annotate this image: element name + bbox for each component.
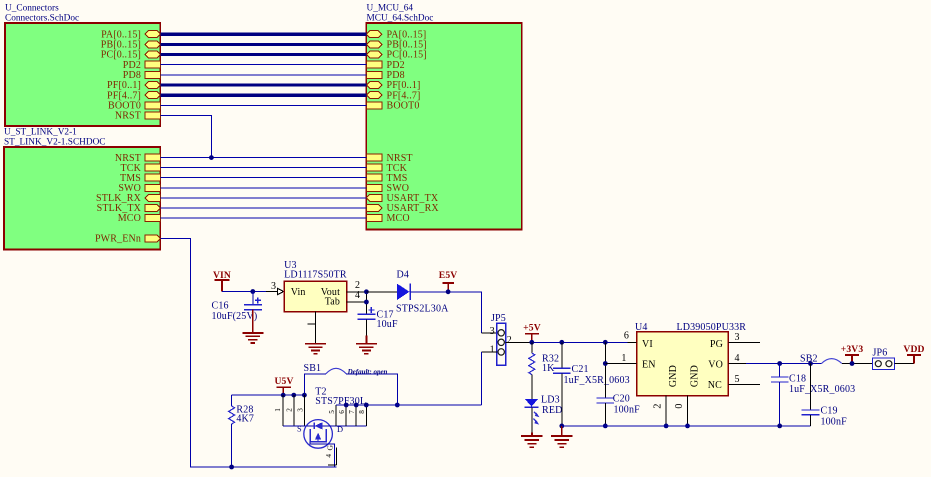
- sheet entry BOOT0 (MCU): [366, 101, 419, 112]
- pin 1 of U3 (gnd) with tick: [308, 312, 316, 344]
- svg-text:LD1117S50TR: LD1117S50TR: [284, 270, 347, 281]
- svg-text:5: 5: [328, 410, 336, 414]
- bus PF[4..7]: [161, 93, 367, 96]
- sheet entry PD2 (U_Connectors): [123, 60, 161, 71]
- svg-text:GND: GND: [690, 365, 701, 387]
- svg-text:C18: C18: [789, 374, 806, 385]
- sheet symbol U_Connectors: [5, 4, 160, 127]
- wire JP6 to VDD: [895, 363, 915, 365]
- ground (rail): [551, 426, 572, 447]
- power port U5V: [274, 376, 293, 395]
- diode D4 STPS2L30A: [396, 270, 449, 315]
- pin 3 of U4 (PG): [728, 332, 760, 343]
- svg-text:STPS2L30A: STPS2L30A: [396, 304, 449, 315]
- junction T2 pin2: [291, 393, 296, 398]
- junction U4 gnd pad: [685, 424, 690, 429]
- sheet entry STLK_RX (ST_LINK): [96, 193, 160, 204]
- svg-text:10uF: 10uF: [377, 319, 398, 330]
- sheet entry PB[0..15] (MCU): [366, 40, 426, 51]
- svg-text:VI: VI: [642, 339, 653, 350]
- solder bridge SB2: [800, 354, 842, 365]
- sheet entry PA[0..15] (MCU): [366, 29, 426, 40]
- wire EN to U4 pin 1: [605, 363, 627, 365]
- sheet entry USART_TX (MCU): [366, 193, 438, 204]
- svg-text:NC: NC: [708, 380, 722, 391]
- power port +3V3: [841, 344, 864, 363]
- sheet entry PWR_ENn (ST_LINK): [95, 234, 161, 245]
- power port +5V: [523, 323, 541, 343]
- sheet entry PD2 (MCU): [366, 60, 404, 71]
- resistor R28: [229, 395, 254, 467]
- svg-text:JP5: JP5: [491, 313, 506, 324]
- junction C21 bottom / gnd rail: [559, 424, 564, 429]
- wire U3 out to D4: [366, 291, 397, 293]
- junction C16 node: [250, 289, 255, 294]
- svg-text:7: 7: [348, 410, 356, 414]
- pin 3 of T2: [296, 395, 304, 426]
- pin G4 of T2 (gate): [310, 442, 337, 468]
- bus PC[0..15]: [161, 53, 367, 56]
- wire PWR_ENn down to T2 gate net: [161, 238, 337, 467]
- svg-text:Tab: Tab: [325, 297, 340, 308]
- svg-text:VDD: VDD: [903, 344, 924, 355]
- pin 6 of U4 (VI): [624, 331, 637, 343]
- bus PF[0..1]: [161, 83, 367, 86]
- power port E5V: [439, 270, 458, 292]
- sheet entry SWO (ST_LINK): [118, 183, 160, 194]
- svg-text:SB1: SB1: [304, 363, 322, 374]
- sheet entry SWO (MCU): [366, 183, 409, 194]
- svg-text:Vin: Vin: [291, 287, 306, 298]
- sheet entry NRST (MCU): [366, 153, 412, 164]
- regulator U4 LD39050PU33R: [635, 322, 746, 396]
- capacitor C18: [771, 364, 855, 426]
- svg-text:U_Connectors: U_Connectors: [5, 4, 59, 14]
- svg-text:5: 5: [735, 374, 740, 385]
- bus PA[0..15]: [161, 33, 367, 36]
- svg-text:1: 1: [490, 345, 495, 356]
- transistor T2 STS7PF30L: [297, 387, 366, 449]
- junction U3 out: [364, 289, 369, 294]
- junction T2 pin1: [281, 393, 286, 398]
- svg-text:2: 2: [286, 408, 294, 412]
- wire PD8: [161, 74, 367, 76]
- svg-text:+5V: +5V: [523, 323, 541, 334]
- svg-text:MCU_64.SchDoc: MCU_64.SchDoc: [367, 14, 434, 24]
- pin 6 of T2: [338, 405, 346, 426]
- capacitor C21: [553, 342, 630, 426]
- junction +3V3: [850, 361, 855, 366]
- svg-text:6: 6: [624, 331, 629, 342]
- wire U5V source rail: [232, 394, 305, 396]
- sheet entry MCO (ST_LINK): [118, 213, 161, 224]
- sheet entry TCK (MCU): [366, 163, 407, 174]
- svg-text:NRST: NRST: [115, 111, 141, 122]
- wire STLK_RX to USART_TX: [161, 197, 367, 199]
- svg-text:0: 0: [674, 403, 685, 408]
- svg-text:4: 4: [735, 353, 740, 364]
- wire MCO: [161, 217, 367, 219]
- svg-text:C21: C21: [572, 364, 589, 375]
- svg-text:RED: RED: [542, 405, 562, 416]
- bus PB[0..15]: [161, 43, 367, 46]
- wire NRST from U_Connectors down: [161, 115, 212, 157]
- sheet entry PF[0..1] (U_Connectors): [107, 80, 160, 91]
- junction E5V: [446, 289, 451, 294]
- svg-text:U_MCU_64: U_MCU_64: [367, 4, 414, 14]
- svg-text:1: 1: [274, 408, 282, 412]
- sheet entry PB[0..15] (U_Connectors): [101, 40, 161, 51]
- wire T2 drain rail: [336, 404, 481, 406]
- svg-text:2: 2: [507, 335, 512, 346]
- sheet entry USART_RX (MCU): [366, 203, 439, 214]
- wire T2 drain bar: [330, 425, 367, 427]
- svg-text:C20: C20: [613, 394, 630, 405]
- junction C20 bottom: [603, 424, 608, 429]
- svg-text:1uF_X5R_0603: 1uF_X5R_0603: [789, 384, 855, 395]
- junction EN node: [603, 361, 608, 366]
- regulator U3 LD1117S50TR: [284, 260, 347, 312]
- power port VIN: [213, 270, 231, 292]
- capacitor C19: [802, 364, 848, 428]
- LED LD3 RED: [525, 395, 563, 425]
- sheet entry PF[4..7] (MCU): [366, 90, 420, 101]
- capacitor C17: [358, 307, 398, 330]
- pin 5 of U4 (NC): [728, 374, 760, 385]
- capacitor C20: [596, 394, 640, 426]
- svg-text:2: 2: [653, 403, 664, 408]
- wire JP5 pin1 down to T2 drain rail: [481, 351, 497, 353]
- pin 2 of U3 (Vout): [347, 280, 367, 292]
- pin 7 of T2: [348, 405, 356, 426]
- svg-text:D4: D4: [397, 270, 410, 281]
- junction +5V: [529, 340, 534, 345]
- svg-text:SB2: SB2: [800, 354, 818, 365]
- pin 1 of T2: [274, 395, 283, 426]
- sheet entry TMS (ST_LINK): [120, 173, 161, 184]
- sheet entry MCO (MCU): [366, 213, 409, 224]
- wire U3 output node: [365, 292, 367, 315]
- svg-text:4: 4: [325, 454, 333, 458]
- pin 0 of U4 (GND pad): [674, 396, 688, 426]
- pin 4 of U4 (VO): [728, 353, 746, 364]
- solder bridge SB1: [304, 363, 398, 405]
- sheet entry NRST (U_Connectors): [115, 111, 161, 122]
- sheet entry TCK (ST_LINK): [121, 163, 161, 174]
- junction T2 pin3: [302, 393, 307, 398]
- svg-text:3: 3: [490, 326, 495, 337]
- svg-text:ST_LINK_V2-1.SCHDOC: ST_LINK_V2-1.SCHDOC: [4, 138, 106, 148]
- sheet entry NRST (ST_LINK): [115, 153, 161, 164]
- svg-text:MCO: MCO: [387, 213, 410, 224]
- ground (C16): [242, 310, 263, 343]
- svg-text:S: S: [297, 425, 302, 434]
- junction C18 bottom: [777, 424, 782, 429]
- wire SWO: [161, 187, 367, 189]
- wire NRST row: [161, 157, 367, 159]
- svg-text:C16: C16: [212, 301, 229, 312]
- sheet entry BOOT0 (U_Connectors): [108, 101, 160, 112]
- svg-text:GND: GND: [668, 365, 679, 387]
- junction T2 pin6: [344, 403, 349, 408]
- svg-text:1uF_X5R_0603: 1uF_X5R_0603: [564, 375, 630, 386]
- pin 8 of T2: [358, 405, 366, 426]
- svg-text:6: 6: [338, 410, 346, 414]
- svg-text:PWR_ENn: PWR_ENn: [95, 234, 141, 245]
- wire SB2 to JP6: [842, 363, 873, 365]
- svg-text:G: G: [325, 445, 334, 451]
- pin 4 of U3 (Tab): [347, 290, 367, 302]
- wire TCK: [161, 167, 367, 169]
- junction SB2 / C19 top: [808, 361, 813, 366]
- junction C21 top: [559, 340, 564, 345]
- svg-text:LD3: LD3: [541, 395, 560, 406]
- wire STLK_TX to USART_RX: [161, 207, 367, 209]
- svg-text:+3V3: +3V3: [841, 344, 864, 355]
- sheet entry PD8 (MCU): [366, 70, 404, 81]
- junction T2 pin8: [364, 403, 369, 408]
- svg-text:U_ST_LINK_V2-1: U_ST_LINK_V2-1: [4, 128, 77, 138]
- svg-text:Connectors.SchDoc: Connectors.SchDoc: [5, 14, 79, 24]
- junction NRST: [209, 155, 214, 160]
- svg-text:EN: EN: [642, 360, 656, 371]
- wire gnd rail: [562, 425, 811, 427]
- junction U3 tab: [364, 300, 369, 305]
- svg-text:PG: PG: [710, 339, 723, 350]
- svg-text:3: 3: [296, 408, 304, 412]
- junction T2 pin7: [354, 403, 359, 408]
- svg-text:Default: open: Default: open: [347, 368, 388, 376]
- wire BOOT0: [161, 104, 367, 106]
- svg-text:8: 8: [358, 410, 366, 414]
- sheet entry PA[0..15] (U_Connectors): [101, 29, 160, 40]
- sheet entry PF[4..7] (U_Connectors): [107, 90, 160, 101]
- pin 2 of T2: [286, 395, 294, 426]
- sheet entry TMS (MCU): [366, 173, 407, 184]
- pin 5 of T2: [328, 405, 336, 426]
- svg-text:C19: C19: [821, 406, 838, 417]
- svg-text:100nF: 100nF: [614, 405, 641, 416]
- sheet entry STLK_TX (ST_LINK): [97, 203, 161, 214]
- power port VDD: [903, 344, 924, 363]
- junction R28 bottom: [229, 465, 234, 470]
- svg-text:1: 1: [621, 353, 626, 364]
- junction U4 gnd pin 2: [664, 424, 669, 429]
- connector JP6: [873, 348, 895, 370]
- ground (C17): [356, 319, 377, 353]
- svg-text:U4: U4: [635, 322, 648, 333]
- svg-text:100nF: 100nF: [821, 417, 848, 428]
- ground (LD3): [521, 407, 542, 447]
- pin 1 of U4 (EN): [621, 353, 636, 364]
- wire VIN to U3 pin 3: [222, 291, 271, 293]
- svg-text:4: 4: [355, 290, 360, 301]
- svg-text:VO: VO: [708, 360, 723, 371]
- sheet entry PF[0..1] (MCU): [366, 80, 420, 91]
- wire VO to SB2: [746, 363, 822, 365]
- sheet entry PD8 (U_Connectors): [123, 70, 161, 81]
- sheet entry PC[0..15] (MCU): [366, 50, 426, 61]
- pin 2 of U4 (GND): [653, 396, 667, 426]
- capacitor C16: [212, 292, 262, 323]
- sheet symbol U_ST_LINK_V2-1: [4, 128, 160, 250]
- svg-text:E5V: E5V: [439, 270, 458, 281]
- sheet entry PC[0..15] (U_Connectors): [101, 50, 161, 61]
- ground (U3): [305, 344, 326, 354]
- junction SB1 / drain rail: [395, 403, 400, 408]
- junction C18 top: [777, 361, 782, 366]
- svg-text:BOOT0: BOOT0: [387, 101, 420, 112]
- sheet symbol U_MCU_64: [366, 4, 521, 230]
- wire JP5 pin2 to +5V rail: [506, 341, 532, 343]
- svg-text:4K7: 4K7: [236, 414, 254, 425]
- svg-text:3: 3: [735, 332, 740, 343]
- pin 3 of U3 with input arrow: [266, 281, 284, 295]
- wire TMS: [161, 177, 367, 179]
- svg-text:JP6: JP6: [873, 348, 888, 359]
- junction C20 top: [603, 340, 608, 345]
- wire PD2: [161, 64, 367, 66]
- connector JP5: [491, 313, 506, 365]
- wire VI node down to EN and C20: [604, 342, 606, 398]
- svg-text:10uF(25V): 10uF(25V): [212, 311, 258, 322]
- wire D4 to E5V corner: [410, 292, 481, 333]
- svg-text:U5V: U5V: [274, 376, 293, 387]
- resistor R32: [529, 342, 559, 399]
- svg-text:3: 3: [271, 281, 276, 292]
- wire T2 source bar: [283, 425, 307, 427]
- svg-text:MCO: MCO: [118, 213, 141, 224]
